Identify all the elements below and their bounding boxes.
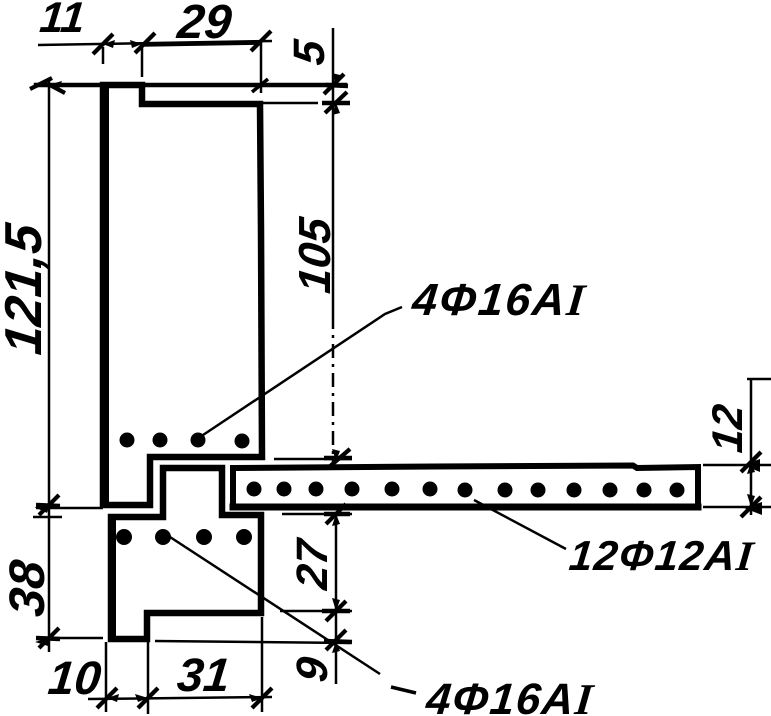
5 and 105 dimension line — [262, 28, 352, 462]
svg-text:4Φ16AI: 4Φ16AI — [409, 274, 589, 325]
lower wall panel outline — [111, 468, 261, 639]
svg-text:105: 105 — [289, 214, 340, 295]
27 and 9 dimension line — [155, 512, 352, 684]
left dimension ticks — [30, 78, 65, 648]
bottom dimension ticks — [97, 688, 272, 708]
svg-text:12Φ12AI: 12Φ12AI — [567, 532, 757, 580]
leader line top 4ph16 — [200, 307, 402, 437]
left dimension line 121,5 / 38 — [33, 80, 103, 652]
svg-text:31: 31 — [175, 648, 233, 701]
arrow blob reinforcements — [36, 85, 352, 642]
rebar dots upper wall 4ph16 — [120, 433, 250, 449]
floor slab outline — [233, 466, 698, 508]
ticks for 5 and 105 — [324, 74, 350, 468]
upper wall panel outline — [36, 85, 345, 505]
svg-text:121,5: 121,5 — [0, 220, 53, 357]
svg-text:38: 38 — [0, 557, 55, 619]
svg-text:10: 10 — [46, 651, 104, 704]
svg-text:12: 12 — [704, 402, 752, 455]
bottom dimension line 10 / 31 — [88, 616, 272, 714]
rebar dots lower wall 4ph16 — [116, 529, 252, 545]
ticks for 27 and 9 — [326, 504, 346, 650]
svg-text:11: 11 — [38, 0, 88, 42]
ticks for 12 — [741, 452, 761, 517]
rebar dots slab 12ph12 — [247, 482, 685, 498]
leader line 12ph12 — [474, 500, 566, 549]
svg-text:29: 29 — [174, 0, 234, 49]
svg-text:27: 27 — [288, 535, 337, 593]
leader line bottom 4ph16 — [170, 537, 416, 693]
svg-text:4Φ16AI: 4Φ16AI — [423, 675, 597, 716]
12 dimension line right — [703, 379, 771, 515]
top dimension ticks — [93, 31, 271, 92]
top dimension line — [38, 41, 272, 93]
